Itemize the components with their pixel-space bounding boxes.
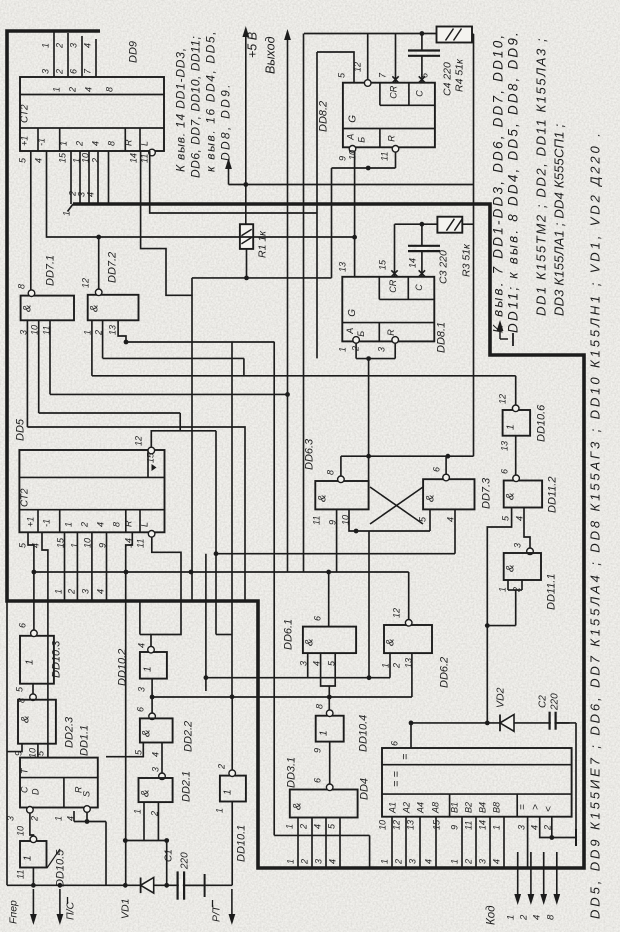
svg-text:&: & [425, 495, 437, 502]
svg-text:11: 11 [312, 516, 322, 525]
DD5 bottom row label -1 [42, 519, 52, 527]
DD4 pin number 3 [517, 825, 527, 830]
gate DD3.1 box [290, 790, 358, 818]
DD8.1 designator [436, 322, 448, 353]
DD10.2 designator [117, 649, 129, 686]
wire latch input drop [368, 359, 370, 481]
DD9 bottom pin number 10 [81, 153, 91, 163]
net label 2 [55, 43, 65, 49]
junction power branch [243, 182, 248, 187]
svg-text:9: 9 [338, 156, 348, 161]
svg-text:СТ2: СТ2 [20, 104, 31, 123]
junction C3 top [420, 222, 425, 227]
svg-text:CR: CR [388, 279, 398, 292]
DD6.3 pin number 10 [341, 515, 351, 525]
svg-text:-1: -1 [37, 138, 47, 146]
wire C4 to rail [421, 34, 423, 51]
R3 value label [461, 243, 473, 277]
DD8.2 pin6 cross mark [419, 76, 425, 82]
DD11.1 pin3 open circle [527, 548, 534, 555]
svg-text:Выход: Выход [264, 36, 278, 74]
DD5 bottom row label +1 [26, 517, 36, 527]
svg-text:14: 14 [478, 820, 488, 830]
svg-text:DD7.2: DD7.2 [107, 252, 119, 283]
wire node h [487, 625, 515, 627]
DD4 pin number 1 [492, 825, 502, 830]
junction PS [58, 883, 63, 888]
output arrow P/T [229, 889, 236, 925]
svg-text:-1: -1 [42, 519, 52, 527]
wire to R1 node [331, 168, 333, 278]
DD3.1 pin6 open circle [326, 784, 333, 791]
DD9 bottom row label L [140, 141, 150, 146]
DD5 bottom pin number 10 [83, 538, 93, 548]
DD4 title == [391, 771, 403, 787]
svg-text:DD8, DD9.: DD8, DD9. [219, 82, 233, 161]
wire DD4 B tap 2 [475, 817, 477, 868]
svg-text:R: R [124, 139, 134, 146]
cross-couple diagonal 1 [370, 487, 423, 524]
svg-text:12: 12 [134, 436, 144, 446]
DD5 bottom row label R [124, 520, 134, 527]
gate DD6.3 box [315, 481, 368, 509]
svg-text:DD3.1: DD3.1 [286, 757, 298, 788]
DD7.3 & symbol [425, 495, 437, 502]
DD4 out label = [518, 804, 529, 810]
tap label 3 [77, 192, 87, 197]
DD10.2 symbol 1 [143, 666, 154, 672]
DD9 CT2 label [20, 104, 31, 123]
wire DD7.1 pin3 down [26, 320, 28, 427]
svg-text:8: 8 [112, 522, 122, 527]
DD8.2 pin11 number [380, 152, 390, 161]
DD5 tap label 4 [96, 589, 106, 594]
gate DD11.1 box [504, 553, 541, 580]
svg-text:12: 12 [392, 608, 402, 618]
svg-text:1: 1 [381, 663, 391, 668]
DD7.2 pin number 1 [83, 330, 93, 335]
wire v205 [205, 554, 207, 691]
DD6.2 pin12 number [392, 608, 402, 618]
svg-text:13: 13 [108, 325, 118, 335]
DD4 pin number 12 [392, 820, 402, 830]
P/T label [211, 900, 223, 922]
DD5 designator [15, 418, 27, 441]
DD9 pin number 7 [83, 68, 93, 74]
svg-text:DD8.2: DD8.2 [318, 101, 330, 132]
wire Kod bit 4 [543, 852, 545, 868]
DD5 bottom pin number 11 [136, 539, 146, 548]
DD6.3 pin8 number [326, 470, 336, 475]
wire DD8.2 pin12 to +5V rail [367, 34, 369, 80]
parts list line2 [552, 124, 567, 316]
junction pins9-11 [366, 166, 371, 171]
cascade c1 drop [273, 342, 275, 835]
DD2.3 pin10 number [28, 748, 38, 758]
enable terminator bar [575, 829, 577, 846]
DD3.1 tap label 2 [300, 859, 310, 865]
DD10.1 designator [236, 825, 248, 862]
DD1.1 pin5 number [36, 750, 46, 756]
wire C2 to corner [556, 722, 576, 724]
wire branch to DD7.2 pin12 [98, 237, 100, 290]
DD4 B tap label 4 [492, 859, 502, 864]
svg-text:1: 1 [64, 522, 74, 527]
DD5 bottom row label 2 [80, 522, 90, 528]
wire C1 right stub [184, 884, 205, 886]
DD6.1 & symbol [304, 639, 316, 646]
svg-text:4: 4 [515, 516, 525, 521]
wire DD8.1 pin15 [394, 224, 396, 277]
svg-text:&: & [89, 305, 101, 312]
svg-text:Б: Б [356, 331, 366, 337]
junction pin2 node [549, 835, 554, 840]
comparator DD4 box [382, 748, 572, 817]
DD7.1 pin number 10 [30, 325, 40, 335]
DD10.2 pin4 number [137, 643, 147, 648]
Kod bit label 2 [519, 914, 530, 921]
DD8.2 pin6 number [420, 73, 430, 78]
svg-text:DD11.1: DD11.1 [546, 574, 558, 610]
svg-text:DD5, DD9 К155ИЕ7 ; DD6, DD7 К: DD5, DD9 К155ИЕ7 ; DD6, DD7 К155ЛА4 ; DD… [588, 130, 603, 919]
junction latch right [446, 454, 451, 459]
DD4 pin number 15 [432, 819, 442, 830]
DD7.3 pin number 4 [446, 517, 456, 522]
DD9 bottom pin number 5 [18, 157, 28, 163]
svg-text:10: 10 [348, 150, 358, 160]
DD4 input label A4 [416, 802, 426, 814]
DD2.1 pin3 number [151, 767, 161, 772]
note к выв.16 line3 [204, 30, 218, 172]
wire DD9 tap 4 [97, 151, 99, 204]
svg-text:DD6.2: DD6.2 [439, 657, 451, 688]
wire DD1.1 S junction [86, 812, 88, 822]
svg-text:4: 4 [34, 158, 44, 163]
wire DD4 pin4 route [540, 817, 576, 838]
DD6.3 designator [304, 438, 316, 470]
wire latch to DD4 row [411, 722, 570, 724]
DD10.3 pin6 open circle [31, 630, 38, 637]
svg-text:1: 1 [133, 809, 143, 814]
DD7.1 designator [45, 255, 57, 286]
bus line end tick [68, 204, 74, 212]
wire DD7.3 pin4 down [454, 509, 456, 553]
DD8.1 R label [386, 329, 396, 336]
DD9 bottom row label 2 [75, 141, 85, 147]
DD7.1 pin number 11 [42, 326, 52, 335]
svg-text:2: 2 [80, 522, 90, 528]
svg-text:A8: A8 [431, 802, 441, 814]
svg-text:DD1 К155ТМ2 ; DD2, DD11 К155Л: DD1 К155ТМ2 ; DD2, DD11 К155ЛА3 ; [534, 37, 549, 316]
capacitor C1 [178, 871, 185, 899]
VD2 label [495, 687, 507, 708]
DD2.2 pin6 number [136, 707, 146, 712]
DD3.1 & symbol [292, 803, 304, 810]
junction y697 mid [327, 695, 332, 700]
capacitor C2 [550, 712, 556, 730]
DD3.1 pin6 number [313, 778, 323, 783]
junction y572 [32, 570, 37, 575]
svg-text:2: 2 [464, 859, 474, 865]
DD5 bottom pin number 15 [56, 537, 66, 548]
svg-text:<: < [544, 806, 555, 812]
svg-text:1: 1 [285, 824, 295, 829]
C2 ref label [538, 695, 549, 708]
DD8.1 C label [414, 284, 424, 291]
gate DD6.2 box [384, 625, 432, 653]
junction R1 bottom [244, 276, 249, 281]
DD6.1 pin6 number [313, 616, 323, 621]
power pointer arrow [225, 158, 232, 185]
note к выв.14 line1 [174, 47, 188, 172]
DD4 pin number 13 [406, 820, 416, 830]
gate DD2.2 box [140, 718, 173, 742]
DD10.5 pin10 open circle [30, 836, 37, 843]
svg-text:4: 4 [91, 141, 101, 146]
svg-text:+1: +1 [26, 517, 36, 527]
svg-text:1: 1 [143, 666, 154, 672]
wire R1 node horizontal [192, 277, 332, 279]
wire DD8.2 pin6 [421, 56, 423, 83]
svg-text:1: 1 [338, 347, 348, 352]
resistor R3 [437, 217, 462, 233]
DD9 top row weight label 4 [84, 87, 94, 92]
DD9 bottom row label 4 [91, 141, 101, 146]
DD2.1 pin1 number [133, 809, 143, 814]
DD10.5 designator [55, 849, 67, 887]
svg-text:1: 1 [319, 730, 330, 736]
wire DD2.1 pin1 down [143, 802, 145, 840]
Kod bit label 8 [546, 914, 557, 920]
DD6.2 pin number 2 [392, 663, 402, 669]
DD9 bottom row label 8 [107, 141, 117, 146]
wire DD5 pin14 down [126, 532, 133, 885]
svg-text:R: R [386, 135, 396, 142]
cascade wire c3 [50, 393, 289, 395]
gate DD7.2 box [88, 295, 139, 321]
DD9 bottom pin number 15 [58, 152, 68, 163]
DD4 pin number 4 [530, 825, 540, 830]
DD4 A tap label 2 [394, 859, 404, 865]
inverter DD10.6 box [503, 410, 530, 436]
DD2.2 pin5 number [134, 749, 144, 755]
DD7.1 pin8 number [17, 284, 27, 289]
DD8.1 pin1 number [338, 347, 348, 352]
DD2.3 pin input open circle [30, 694, 37, 701]
svg-text:DD10.3: DD10.3 [51, 640, 63, 678]
svg-text:3: 3 [69, 43, 79, 48]
DD8.2 CR label [388, 85, 398, 98]
svg-text:G: G [347, 115, 358, 123]
DD5 load label 15 [146, 452, 156, 463]
wire c2b to DD10.6 [515, 376, 517, 406]
wire DD6.3 pin8 up [340, 456, 342, 476]
wire DD5 tap 1 [64, 532, 66, 601]
svg-text:DD2.3: DD2.3 [64, 716, 76, 748]
note к выв.14 line2 [189, 36, 203, 178]
wire DD6.2 pin1 down [389, 653, 391, 678]
junction F [31, 883, 36, 888]
wire DD8.1 pin1 down [355, 343, 357, 359]
DD2.1 & symbol [140, 790, 152, 797]
DD10.1 pin1 number [215, 808, 225, 813]
svg-text:DD6.3: DD6.3 [304, 438, 316, 470]
svg-text:&: & [22, 305, 34, 312]
svg-text:12: 12 [353, 62, 363, 72]
DD9 pin number 3 [41, 69, 51, 74]
junction pin12 branch [96, 235, 101, 240]
tap label 2 [68, 191, 78, 197]
inverter DD10.2 box [140, 652, 167, 679]
DD8.2 pin9 number [338, 156, 348, 161]
wire DD7.2 pin13 down [118, 320, 126, 342]
output arrow Fper [30, 889, 37, 925]
svg-text:8: 8 [107, 141, 117, 146]
DD6.1 designator [283, 619, 295, 650]
DD2.2 pin6 open circle [149, 713, 156, 720]
capacitor C3 [408, 246, 440, 251]
DD1.1 T label [20, 767, 30, 774]
DD4 B tap label 3 [478, 859, 488, 864]
wire h840 [125, 840, 166, 842]
svg-text:4: 4 [96, 522, 106, 527]
DD8.1 pin14 number [408, 258, 418, 268]
wire R3 right terminal [462, 223, 473, 225]
wire DD8.2 pin5 [317, 52, 354, 83]
DD4 pin number 9 [450, 825, 460, 830]
DD2.2 & symbol [141, 730, 153, 737]
wire DD4 B tap 3 [489, 817, 491, 868]
junction v3 y572 [189, 570, 194, 575]
svg-text:2: 2 [55, 69, 65, 75]
svg-text:1: 1 [492, 825, 502, 830]
Kod bit label 4 [532, 915, 543, 920]
DD7.3 pin6 open circle [443, 474, 450, 481]
svg-text:6: 6 [313, 778, 323, 783]
svg-text:9: 9 [450, 825, 460, 830]
cascade wire c5 [27, 427, 245, 601]
wire DD4 A tap 4 [435, 817, 437, 868]
svg-text:VD2: VD2 [495, 687, 507, 708]
svg-text:DD10.4: DD10.4 [358, 715, 370, 752]
DD9 bottom row label 1 [59, 141, 69, 146]
DD4 equality title [400, 753, 412, 760]
DD10.1 pin2 open circle [229, 770, 236, 777]
svg-text:6: 6 [390, 741, 400, 746]
net label 1 [41, 43, 51, 48]
svg-text:>: > [531, 804, 542, 810]
DD5 bottom pin number 14 [124, 538, 134, 548]
DD1.1 R label [74, 786, 84, 793]
svg-text:8: 8 [315, 704, 325, 709]
svg-text:+5 В: +5 В [246, 32, 260, 58]
diode VD1 [141, 878, 154, 894]
DD7.1 pin number 3 [19, 330, 29, 335]
svg-text:DD10.2: DD10.2 [117, 649, 129, 686]
DD5 CT2 label [20, 488, 31, 507]
DD1.1 pinS open circle [84, 806, 91, 813]
svg-text:2: 2 [392, 663, 402, 669]
Vyhod label [264, 36, 278, 74]
DD9 bottom pin number 1 [72, 158, 82, 163]
svg-text:11: 11 [464, 821, 474, 830]
wire h697 [152, 696, 412, 698]
wire DD2.2 pin4 down [161, 743, 163, 774]
svg-text:11: 11 [136, 539, 146, 548]
svg-text:G: G [347, 309, 358, 317]
DD1.1 pin number 1 [54, 816, 64, 821]
svg-text:11: 11 [380, 152, 390, 161]
svg-text:С2: С2 [538, 695, 549, 708]
DD5 bottom pin number 5 [18, 542, 28, 548]
svg-text:B4: B4 [478, 802, 488, 813]
wire x216 elbow [216, 634, 232, 636]
DD8.2 pin11 open circle [392, 146, 399, 153]
Fper label [8, 900, 20, 924]
C1 terminator bar [204, 874, 206, 897]
junction Vyhod c3 [285, 392, 290, 397]
svg-text:4: 4 [313, 824, 323, 829]
wire DD4 A tap 2 [405, 817, 407, 868]
DD8.2 A label [345, 134, 355, 141]
DD1.1 pin number 2 [30, 816, 40, 822]
resistor R1 [240, 224, 253, 249]
DD10.4 designator [358, 715, 370, 752]
svg-text:1: 1 [506, 915, 517, 920]
DD4 input label A1 [388, 802, 398, 814]
wire DD8.1 pin3 down [394, 343, 396, 359]
svg-text:DD1.1: DD1.1 [79, 725, 91, 756]
svg-text:С1: С1 [164, 849, 175, 862]
DD8.2 designator [318, 101, 330, 132]
svg-text:VD1: VD1 [120, 899, 132, 919]
DD5 pin12 open circle [148, 447, 155, 454]
DD8.2 pin12 number [353, 62, 363, 72]
DD8.2 pin10 number [348, 150, 358, 160]
DD2.3 pin9 number [14, 751, 24, 756]
wire DD5 tap 2 [76, 532, 78, 601]
svg-text:=: = [400, 753, 412, 760]
wire left drop from pin5 route [316, 52, 318, 358]
DD8.2 pin7 number [378, 72, 388, 78]
wire rs output bus [216, 553, 455, 555]
DD6.3 pin8 open circle [338, 476, 345, 483]
DD4 A tap label 3 [408, 859, 418, 864]
DD4 input label B2 [464, 802, 474, 813]
svg-text:К выв. 14 DD1-DD3,: К выв. 14 DD1-DD3, [174, 47, 188, 172]
DD9 bottom row label +1 [20, 136, 30, 146]
DD7.2 pin number 13 [108, 325, 118, 335]
wire DD5 tap 4 [106, 532, 108, 601]
svg-text:13: 13 [406, 820, 416, 830]
wire DD11.1 tie [508, 589, 522, 591]
DD6.3 pin number 9 [328, 520, 338, 525]
DD4 out label < [544, 806, 555, 812]
svg-text:1: 1 [286, 859, 296, 864]
wire DD4 B tap 1 [461, 817, 463, 868]
DD8.1 pin2 number [351, 346, 361, 352]
wire DD7.2 pin2 down [102, 320, 104, 358]
C2 value label [550, 693, 561, 711]
DD4 pin6 number [390, 741, 400, 746]
svg-text:A1: A1 [388, 802, 398, 814]
flip-flop DD1.1 box [20, 758, 98, 808]
DD6.2 designator [439, 657, 451, 688]
svg-text:3: 3 [41, 69, 51, 74]
svg-text:С4 220: С4 220 [442, 62, 454, 96]
DD8.2 pin12 open circle [364, 80, 371, 87]
svg-text:10: 10 [83, 538, 93, 548]
